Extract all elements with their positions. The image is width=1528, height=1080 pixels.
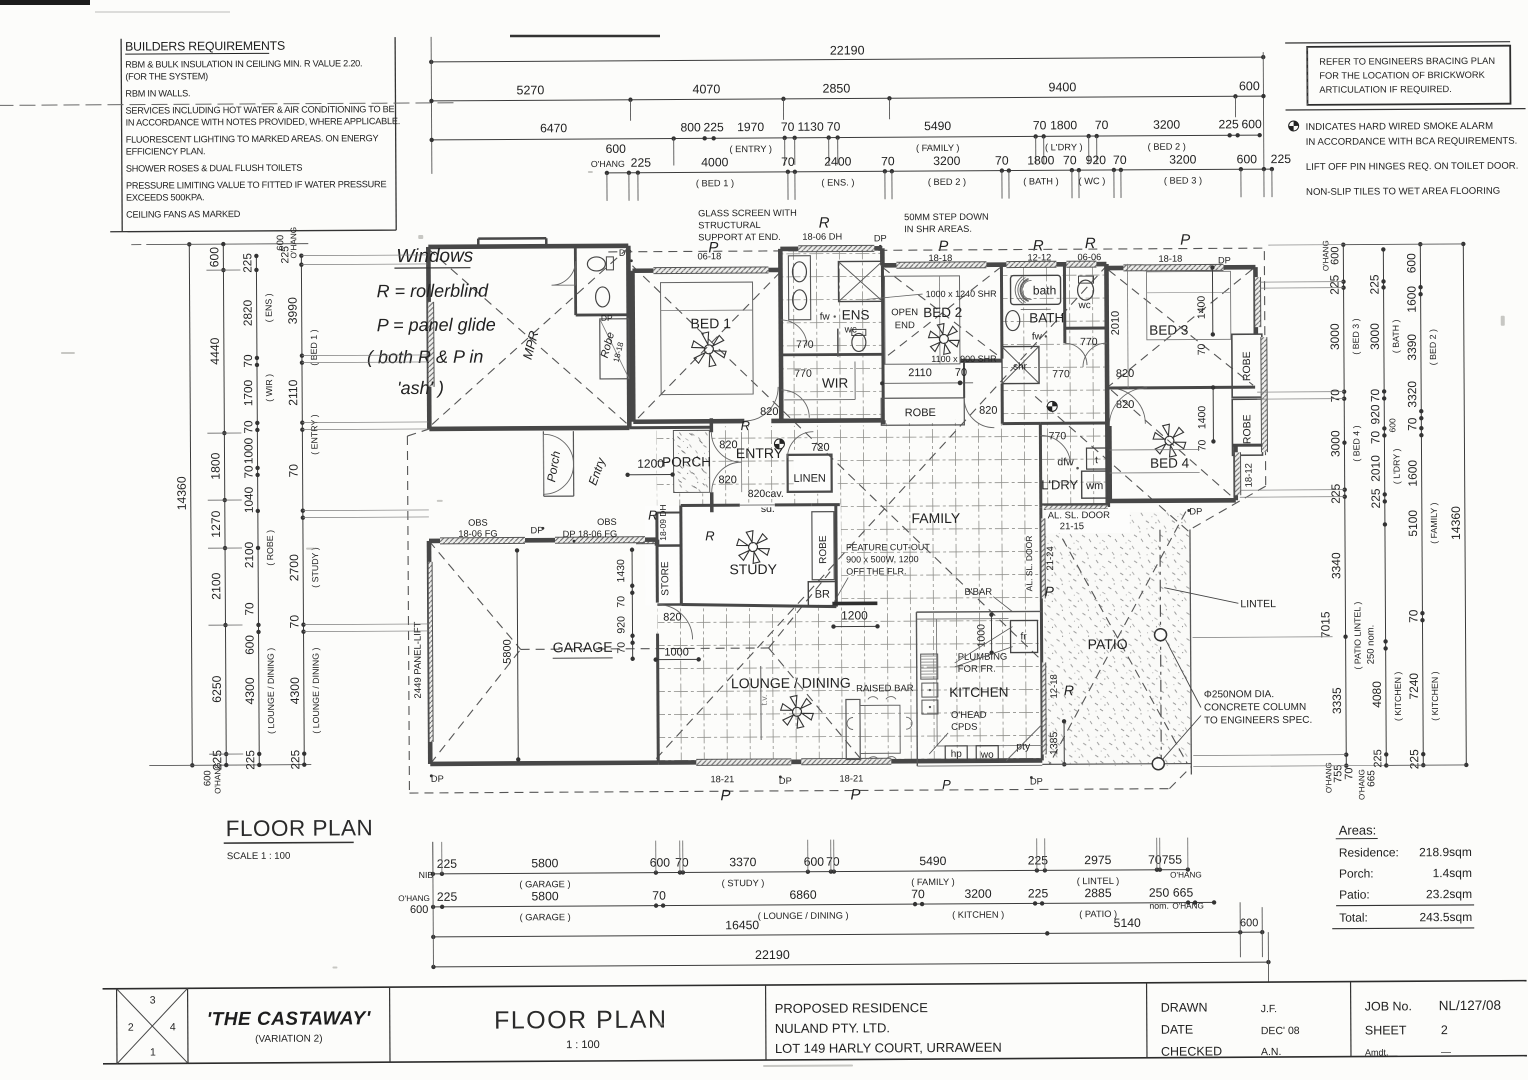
svg-text:70: 70 (242, 465, 256, 479)
svg-text:FEATURE CUT-OUT: FEATURE CUT-OUT (846, 542, 930, 552)
svg-text:SCALE 1 : 100: SCALE 1 : 100 (227, 851, 291, 862)
svg-text:EXCEEDS 500KPA.: EXCEEDS 500KPA. (126, 192, 204, 202)
svg-text:DP: DP (431, 774, 444, 784)
svg-text:GARAGE: GARAGE (553, 639, 613, 655)
svg-text:DATE: DATE (1161, 1023, 1194, 1037)
svg-text:2010: 2010 (1110, 311, 1122, 336)
svg-text:1700: 1700 (241, 379, 255, 406)
svg-text:1600: 1600 (1406, 460, 1420, 487)
svg-text:( WC ): ( WC ) (1078, 176, 1105, 186)
svg-text:LINTEL: LINTEL (1240, 598, 1276, 610)
svg-text:O'HANG: O'HANG (289, 227, 298, 259)
svg-text:RBM & BULK INSULATION IN CEILI: RBM & BULK INSULATION IN CEILING MIN. R … (125, 58, 362, 69)
svg-text:225: 225 (240, 253, 254, 273)
svg-text:770: 770 (796, 339, 814, 351)
svg-text:FAMILY: FAMILY (911, 510, 961, 526)
svg-text:600: 600 (1239, 79, 1260, 93)
svg-text:225: 225 (631, 156, 652, 170)
svg-text:P: P (708, 239, 718, 256)
svg-text:CHECKED: CHECKED (1161, 1044, 1222, 1058)
svg-text:( L'DRY ): ( L'DRY ) (1045, 142, 1083, 152)
svg-text:LOT 149 HARLY COURT, URRAWEEN: LOT 149 HARLY COURT, URRAWEEN (775, 1040, 1002, 1056)
svg-text:DP: DP (530, 525, 543, 535)
svg-text:820: 820 (979, 405, 997, 417)
svg-text:ENS: ENS (842, 307, 870, 322)
svg-text:2850: 2850 (822, 81, 850, 95)
svg-text:( PATIO LINTEL ): ( PATIO LINTEL ) (1352, 602, 1362, 670)
svg-text:2885: 2885 (1084, 886, 1111, 900)
svg-text:21-24: 21-24 (1045, 546, 1056, 570)
svg-text:P: P (942, 777, 951, 792)
svg-text:70: 70 (955, 367, 967, 379)
svg-text:( BED 4 ): ( BED 4 ) (1351, 425, 1361, 461)
svg-text:665: 665 (1366, 770, 1377, 787)
svg-text:3340: 3340 (1329, 552, 1343, 579)
svg-text:1385: 1385 (1048, 731, 1060, 755)
svg-text:3390: 3390 (1405, 334, 1419, 361)
svg-text:1130: 1130 (797, 120, 824, 134)
svg-text:22190: 22190 (755, 948, 790, 962)
svg-text:225: 225 (1218, 117, 1239, 131)
svg-text:pty: pty (1016, 740, 1031, 752)
svg-text:18-12: 18-12 (1244, 463, 1255, 487)
svg-text:ARTICULATION IF REQUIRED.: ARTICULATION IF REQUIRED. (1319, 84, 1451, 95)
svg-text:3990: 3990 (286, 297, 300, 324)
svg-text:18-18: 18-18 (1158, 254, 1182, 264)
svg-text:600: 600 (1241, 117, 1262, 131)
svg-text:( GARAGE ): ( GARAGE ) (519, 879, 570, 889)
svg-text:fr: fr (1020, 631, 1027, 642)
svg-text:70: 70 (1368, 388, 1382, 402)
svg-text:600: 600 (1240, 917, 1258, 929)
svg-text:( LOUNGE / DINING ): ( LOUNGE / DINING ) (758, 911, 849, 922)
svg-text:225: 225 (1369, 488, 1383, 508)
svg-text:225: 225 (1271, 152, 1292, 166)
svg-text:nom.: nom. (1149, 901, 1169, 911)
svg-text:( BED 2 ): ( BED 2 ) (1148, 142, 1186, 152)
svg-text:600: 600 (410, 904, 428, 916)
svg-text:R: R (1033, 237, 1044, 254)
svg-text:18-21: 18-21 (839, 773, 863, 783)
svg-text:70: 70 (1328, 389, 1342, 403)
svg-text:70: 70 (615, 596, 627, 608)
svg-text:BED 2: BED 2 (923, 305, 962, 320)
svg-text:600: 600 (202, 770, 213, 786)
svg-text:1270: 1270 (209, 510, 223, 537)
svg-text:( LINTEL ): ( LINTEL ) (1077, 876, 1120, 886)
svg-text:800: 800 (680, 120, 701, 134)
svg-text:( ROBE ): ( ROBE ) (265, 530, 275, 566)
svg-text:2100: 2100 (242, 541, 256, 568)
svg-text:3320: 3320 (1405, 381, 1419, 408)
svg-text:820: 820 (1116, 368, 1134, 380)
svg-text:P: P (1180, 232, 1190, 249)
svg-text:BED 3: BED 3 (1149, 323, 1188, 338)
svg-text:50MM STEP DOWN: 50MM STEP DOWN (904, 212, 989, 222)
svg-text:70: 70 (675, 855, 689, 869)
svg-text:770: 770 (1049, 430, 1067, 442)
svg-text:PROPOSED RESIDENCE: PROPOSED RESIDENCE (775, 1000, 929, 1016)
svg-text:225: 225 (288, 749, 302, 769)
svg-text:70: 70 (616, 642, 628, 654)
svg-text:1000 x 1240 SHR: 1000 x 1240 SHR (926, 289, 998, 299)
svg-text:BED 4: BED 4 (1150, 456, 1190, 471)
svg-text:70: 70 (781, 155, 795, 169)
svg-text:820cav.: 820cav. (748, 488, 784, 500)
svg-text:R: R (648, 508, 657, 523)
svg-text:18-06 DH: 18-06 DH (802, 232, 842, 242)
svg-text:( BATH ): ( BATH ) (1391, 319, 1401, 353)
svg-text:LOUNGE / DINING: LOUNGE / DINING (731, 675, 851, 692)
svg-text:DP: DP (1189, 506, 1202, 516)
svg-text:16450: 16450 (725, 918, 759, 932)
svg-text:225: 225 (1327, 274, 1341, 294)
svg-text:( LOUNGE / DINING ): ( LOUNGE / DINING ) (266, 648, 276, 734)
svg-text:GLASS SCREEN WITH: GLASS SCREEN WITH (698, 208, 797, 219)
svg-text:1400: 1400 (1196, 296, 1208, 320)
svg-text:OFF THE FLR.: OFF THE FLR. (846, 566, 906, 576)
svg-text:9400: 9400 (1048, 80, 1076, 94)
svg-text:2700: 2700 (287, 554, 301, 581)
svg-text:2820: 2820 (241, 299, 255, 326)
svg-text:RBM IN WALLS.: RBM IN WALLS. (125, 88, 190, 98)
svg-text:ENTRY: ENTRY (736, 445, 784, 461)
svg-text:IN ACCORDANCE WITH NOTES PROVI: IN ACCORDANCE WITH NOTES PROVIDED, WHERE… (126, 116, 400, 128)
svg-text:3200: 3200 (1169, 153, 1196, 167)
svg-text:( KITCHEN ): ( KITCHEN ) (1393, 672, 1403, 721)
svg-text:1800: 1800 (1027, 153, 1054, 167)
svg-text:600: 600 (804, 855, 825, 869)
svg-text:5800: 5800 (531, 856, 558, 870)
svg-text:70: 70 (881, 154, 895, 168)
svg-text:R: R (819, 215, 830, 232)
svg-text:70: 70 (1095, 118, 1109, 132)
svg-text:70: 70 (1196, 343, 1208, 355)
svg-text:600: 600 (650, 856, 671, 870)
svg-text:6470: 6470 (540, 121, 567, 135)
svg-text:NL/127/08: NL/127/08 (1439, 998, 1501, 1013)
svg-text:( WIR ): ( WIR ) (264, 374, 274, 402)
svg-text:Porch:: Porch: (1339, 866, 1374, 880)
svg-text:5800: 5800 (531, 889, 558, 903)
svg-text:P: P (1045, 583, 1055, 599)
svg-text:218.9sqm: 218.9sqm (1419, 845, 1472, 859)
svg-text:Areas:: Areas: (1339, 822, 1377, 837)
svg-text:5270: 5270 (516, 83, 544, 97)
svg-text:( BED 3 ): ( BED 3 ) (1351, 318, 1361, 354)
svg-text:4: 4 (170, 1021, 176, 1033)
svg-text:1000: 1000 (241, 437, 255, 464)
svg-text:1430: 1430 (615, 559, 627, 583)
svg-text:OBS: OBS (597, 517, 617, 527)
svg-text:600: 600 (1329, 246, 1341, 264)
svg-text:225: 225 (243, 750, 257, 770)
svg-text:( STUDY ): ( STUDY ) (722, 878, 765, 888)
svg-text:Residence:: Residence: (1339, 845, 1399, 859)
svg-text:2110: 2110 (908, 367, 932, 379)
svg-text:225: 225 (1407, 749, 1421, 769)
svg-text:O'HANG: O'HANG (213, 762, 222, 794)
svg-text:A.N.: A.N. (1261, 1046, 1281, 1058)
svg-text:5490: 5490 (919, 854, 946, 868)
svg-text:70: 70 (827, 120, 841, 134)
svg-text:dfw: dfw (1057, 456, 1074, 468)
svg-text:820: 820 (663, 611, 681, 623)
svg-text:wo: wo (980, 750, 994, 761)
svg-text:1: 1 (150, 1047, 156, 1059)
svg-text:( STUDY ): ( STUDY ) (310, 547, 320, 588)
svg-text:3200: 3200 (1153, 118, 1180, 132)
svg-text:ROBE: ROBE (1241, 414, 1253, 444)
svg-text:R: R (741, 418, 750, 433)
svg-text:( BED 1 ): ( BED 1 ) (696, 178, 734, 188)
svg-text:7015: 7015 (1318, 611, 1332, 638)
svg-text:23.2sqm: 23.2sqm (1426, 887, 1472, 901)
svg-text:( ENTRY ): ( ENTRY ) (729, 144, 772, 154)
svg-text:70: 70 (1405, 417, 1419, 431)
svg-text:LINEN: LINEN (793, 473, 826, 485)
svg-text:bath: bath (1033, 283, 1056, 297)
svg-text:O'HANG: O'HANG (1357, 769, 1366, 800)
svg-text:225: 225 (1028, 886, 1049, 900)
svg-text:600: 600 (275, 235, 286, 251)
svg-text:AL. SL. DOOR: AL. SL. DOOR (1024, 536, 1034, 592)
svg-text:920: 920 (1368, 404, 1382, 424)
svg-text:70: 70 (1063, 153, 1077, 167)
svg-text:NIB: NIB (419, 870, 434, 880)
svg-text:ROBE: ROBE (818, 535, 829, 564)
svg-text:225: 225 (1367, 274, 1381, 294)
svg-text:70: 70 (1343, 767, 1355, 779)
svg-text:DP: DP (601, 313, 613, 323)
svg-text:BR: BR (815, 589, 830, 601)
svg-text:720: 720 (811, 442, 829, 454)
svg-text:70: 70 (1406, 609, 1420, 623)
svg-text:243.5sqm: 243.5sqm (1419, 910, 1472, 924)
svg-text:4070: 4070 (692, 82, 720, 96)
svg-text:J.F.: J.F. (1261, 1003, 1277, 1015)
svg-text:t.v.: t.v. (759, 695, 769, 706)
svg-text:225: 225 (1329, 483, 1343, 503)
svg-text:( BED 3 ): ( BED 3 ) (1164, 175, 1202, 185)
svg-text:STRUCTURAL: STRUCTURAL (698, 220, 761, 230)
svg-text:1 : 100: 1 : 100 (566, 1039, 600, 1051)
svg-text:( PATIO ): ( PATIO ) (1079, 909, 1117, 919)
svg-text:JOB No.: JOB No. (1365, 999, 1412, 1013)
svg-text:250: 250 (1149, 886, 1170, 900)
svg-text:DP 18-06 FG: DP 18-06 FG (563, 529, 618, 539)
svg-text:BED 1: BED 1 (690, 315, 731, 331)
svg-text:( KITCHEN ): ( KITCHEN ) (1430, 671, 1440, 720)
svg-text:900 x 500W, 1200: 900 x 500W, 1200 (846, 554, 919, 564)
svg-text:( BED 1 ): ( BED 1 ) (309, 329, 319, 365)
svg-text:1100 x 900 SHR: 1100 x 900 SHR (931, 354, 997, 364)
svg-text:3335: 3335 (1330, 687, 1344, 714)
svg-text:( GARAGE ): ( GARAGE ) (520, 912, 571, 922)
svg-text:O'HANG: O'HANG (398, 894, 430, 903)
svg-text:7240: 7240 (1407, 673, 1421, 700)
svg-text:600: 600 (1387, 418, 1397, 433)
svg-text:SHOWER ROSES & DUAL FLUSH TOIL: SHOWER ROSES & DUAL FLUSH TOILETS (126, 163, 303, 174)
svg-text:2449 PANEL-LIFT: 2449 PANEL-LIFT (412, 621, 423, 698)
svg-text:shr: shr (1013, 361, 1028, 372)
svg-text:600: 600 (207, 247, 221, 268)
svg-text:PORCH: PORCH (662, 454, 711, 469)
svg-text:22190: 22190 (830, 43, 865, 57)
svg-text:70: 70 (241, 420, 255, 434)
svg-text:225: 225 (703, 120, 724, 134)
svg-text:P: P (938, 238, 948, 255)
svg-text:70: 70 (287, 464, 301, 478)
svg-text:18-09 DH: 18-09 DH (658, 504, 668, 540)
svg-text:ROBE: ROBE (1241, 351, 1253, 381)
svg-text:5490: 5490 (924, 119, 951, 133)
svg-text:70: 70 (1113, 153, 1127, 167)
svg-text:—: — (1441, 1047, 1451, 1058)
svg-text:1200: 1200 (841, 608, 868, 622)
svg-text:70: 70 (781, 120, 795, 134)
svg-text:2975: 2975 (1084, 853, 1111, 867)
svg-text:1970: 1970 (737, 120, 764, 134)
svg-text:fw: fw (1032, 331, 1043, 342)
svg-text:70: 70 (1033, 118, 1047, 132)
svg-text:5100: 5100 (1406, 510, 1420, 537)
svg-text:600: 600 (606, 142, 627, 156)
svg-text:hp: hp (951, 749, 963, 760)
svg-text:FOR THE LOCATION OF BRICKWORK: FOR THE LOCATION OF BRICKWORK (1319, 70, 1485, 81)
svg-text:P = panel glide: P = panel glide (377, 315, 496, 336)
svg-text:1000: 1000 (664, 646, 689, 658)
svg-text:NULAND PTY. LTD.: NULAND PTY. LTD. (775, 1020, 890, 1036)
svg-text:( ENTRY ): ( ENTRY ) (309, 414, 319, 454)
svg-text:wc: wc (844, 324, 857, 335)
svg-text:1400: 1400 (1196, 406, 1208, 430)
svg-text:3370: 3370 (729, 855, 756, 869)
svg-text:SERVICES INCLUDING HOT WATER &: SERVICES INCLUDING HOT WATER & AIR CONDI… (125, 104, 394, 116)
svg-text:FLOOR PLAN: FLOOR PLAN (494, 1006, 668, 1035)
svg-text:P: P (850, 786, 860, 803)
svg-text:CPDS: CPDS (951, 722, 977, 733)
svg-text:1200: 1200 (637, 457, 664, 471)
svg-text:1800: 1800 (208, 452, 222, 479)
svg-text:PRESSURE LIMITING VALUE TO FIT: PRESSURE LIMITING VALUE TO FITTED IF WAT… (126, 179, 387, 191)
svg-text:REFER TO ENGINEERS BRACING PLA: REFER TO ENGINEERS BRACING PLAN (1319, 56, 1495, 67)
svg-text:( KITCHEN ): ( KITCHEN ) (952, 910, 1004, 920)
svg-text:820: 820 (718, 474, 736, 486)
svg-text:CEILING FANS AS MARKED: CEILING FANS AS MARKED (126, 209, 241, 220)
svg-text:OBS: OBS (468, 518, 488, 528)
svg-text:3000: 3000 (1328, 323, 1342, 350)
svg-text:770: 770 (1052, 368, 1070, 380)
svg-text:70: 70 (241, 354, 255, 368)
svg-text:770: 770 (1080, 336, 1098, 348)
svg-text:2: 2 (128, 1022, 134, 1034)
svg-text:2110: 2110 (286, 379, 300, 406)
svg-text:( L'DRY ): ( L'DRY ) (1391, 448, 1401, 484)
svg-text:920: 920 (615, 616, 627, 634)
svg-text:920: 920 (1086, 153, 1107, 167)
svg-text:( FAMILY ): ( FAMILY ) (911, 877, 955, 887)
svg-text:FLOOR PLAN: FLOOR PLAN (226, 815, 374, 841)
svg-text:'THE CASTAWAY': 'THE CASTAWAY' (207, 1008, 372, 1030)
svg-text:3200: 3200 (964, 887, 991, 901)
svg-text:4000: 4000 (701, 155, 728, 169)
svg-text:BUILDERS REQUIREMENTS: BUILDERS REQUIREMENTS (125, 39, 285, 54)
svg-text:2400: 2400 (824, 154, 851, 168)
svg-text:665: 665 (1173, 886, 1194, 900)
svg-text:FLUORESCENT LIGHTING TO MARKED: FLUORESCENT LIGHTING TO MARKED AREAS. ON… (126, 133, 379, 144)
svg-text:3200: 3200 (933, 154, 960, 168)
svg-text:70: 70 (287, 615, 301, 629)
svg-text:5140: 5140 (1114, 916, 1141, 930)
svg-text:( BED 2 ): ( BED 2 ) (928, 177, 966, 187)
svg-text:Amdt.: Amdt. (1365, 1047, 1389, 1057)
svg-text:R = rollerblind: R = rollerblind (377, 281, 490, 302)
svg-text:SHEET: SHEET (1365, 1023, 1407, 1037)
svg-text:Total:: Total: (1339, 911, 1368, 925)
svg-text:B'BAR: B'BAR (964, 587, 992, 598)
svg-text:14360: 14360 (175, 476, 189, 510)
svg-text:STORE: STORE (660, 561, 671, 596)
svg-text:Patio:: Patio: (1339, 888, 1370, 902)
svg-text:R: R (1064, 682, 1074, 698)
svg-text:O'HEAD: O'HEAD (951, 710, 987, 721)
svg-text:70: 70 (242, 602, 256, 616)
svg-text:755: 755 (1162, 853, 1183, 867)
svg-text:( both R & P in: ( both R & P in (367, 347, 484, 368)
svg-text:2100: 2100 (209, 572, 223, 599)
svg-text:AL. SL. DOOR: AL. SL. DOOR (1048, 510, 1110, 521)
svg-text:( FAMILY ): ( FAMILY ) (1429, 502, 1439, 543)
svg-text:4300: 4300 (288, 677, 302, 704)
svg-text:P: P (720, 787, 730, 804)
svg-text:OPEN: OPEN (891, 307, 918, 318)
svg-text:70: 70 (652, 889, 666, 903)
svg-text:O'HANG: O'HANG (591, 159, 625, 169)
svg-text:O'HANG: O'HANG (1170, 870, 1202, 879)
svg-text:600: 600 (1237, 152, 1258, 166)
svg-text:BATH: BATH (1029, 310, 1064, 325)
svg-text:O'HANG: O'HANG (1172, 901, 1204, 910)
svg-text:4080: 4080 (1370, 681, 1384, 708)
svg-text:250 nom.: 250 nom. (1365, 625, 1376, 665)
svg-text:(VARIATION 2): (VARIATION 2) (255, 1034, 322, 1045)
svg-text:DP: DP (1218, 255, 1231, 265)
svg-text:1040: 1040 (242, 486, 256, 513)
svg-text:1600: 1600 (1405, 286, 1419, 313)
svg-text:L'DRY: L'DRY (1041, 477, 1078, 492)
svg-text:NON-SLIP TILES TO WET AREA FLO: NON-SLIP TILES TO WET AREA FLOORING (1306, 186, 1500, 198)
svg-text:600: 600 (1404, 253, 1418, 273)
svg-text:70: 70 (995, 154, 1009, 168)
svg-text:( ENS. ): ( ENS. ) (821, 177, 854, 187)
svg-text:DRAWN: DRAWN (1161, 1000, 1208, 1014)
svg-text:ROBE: ROBE (905, 407, 936, 419)
svg-text:2: 2 (1441, 1023, 1448, 1037)
svg-text:PATIO: PATIO (1088, 636, 1128, 652)
svg-text:DEC' 08: DEC' 08 (1261, 1025, 1300, 1037)
svg-text:18-21: 18-21 (710, 774, 734, 784)
svg-text:3000: 3000 (1328, 430, 1342, 457)
svg-text:820: 820 (760, 406, 778, 418)
svg-text:EFFICIENCY PLAN.: EFFICIENCY PLAN. (126, 146, 206, 156)
svg-text:RAISED BAR: RAISED BAR (856, 683, 914, 694)
svg-text:14360: 14360 (1449, 506, 1463, 540)
svg-text:770: 770 (794, 368, 812, 380)
svg-text:225: 225 (437, 857, 458, 871)
svg-text:18-06 FG: 18-06 FG (458, 529, 497, 539)
svg-text:21-15: 21-15 (1060, 521, 1084, 532)
